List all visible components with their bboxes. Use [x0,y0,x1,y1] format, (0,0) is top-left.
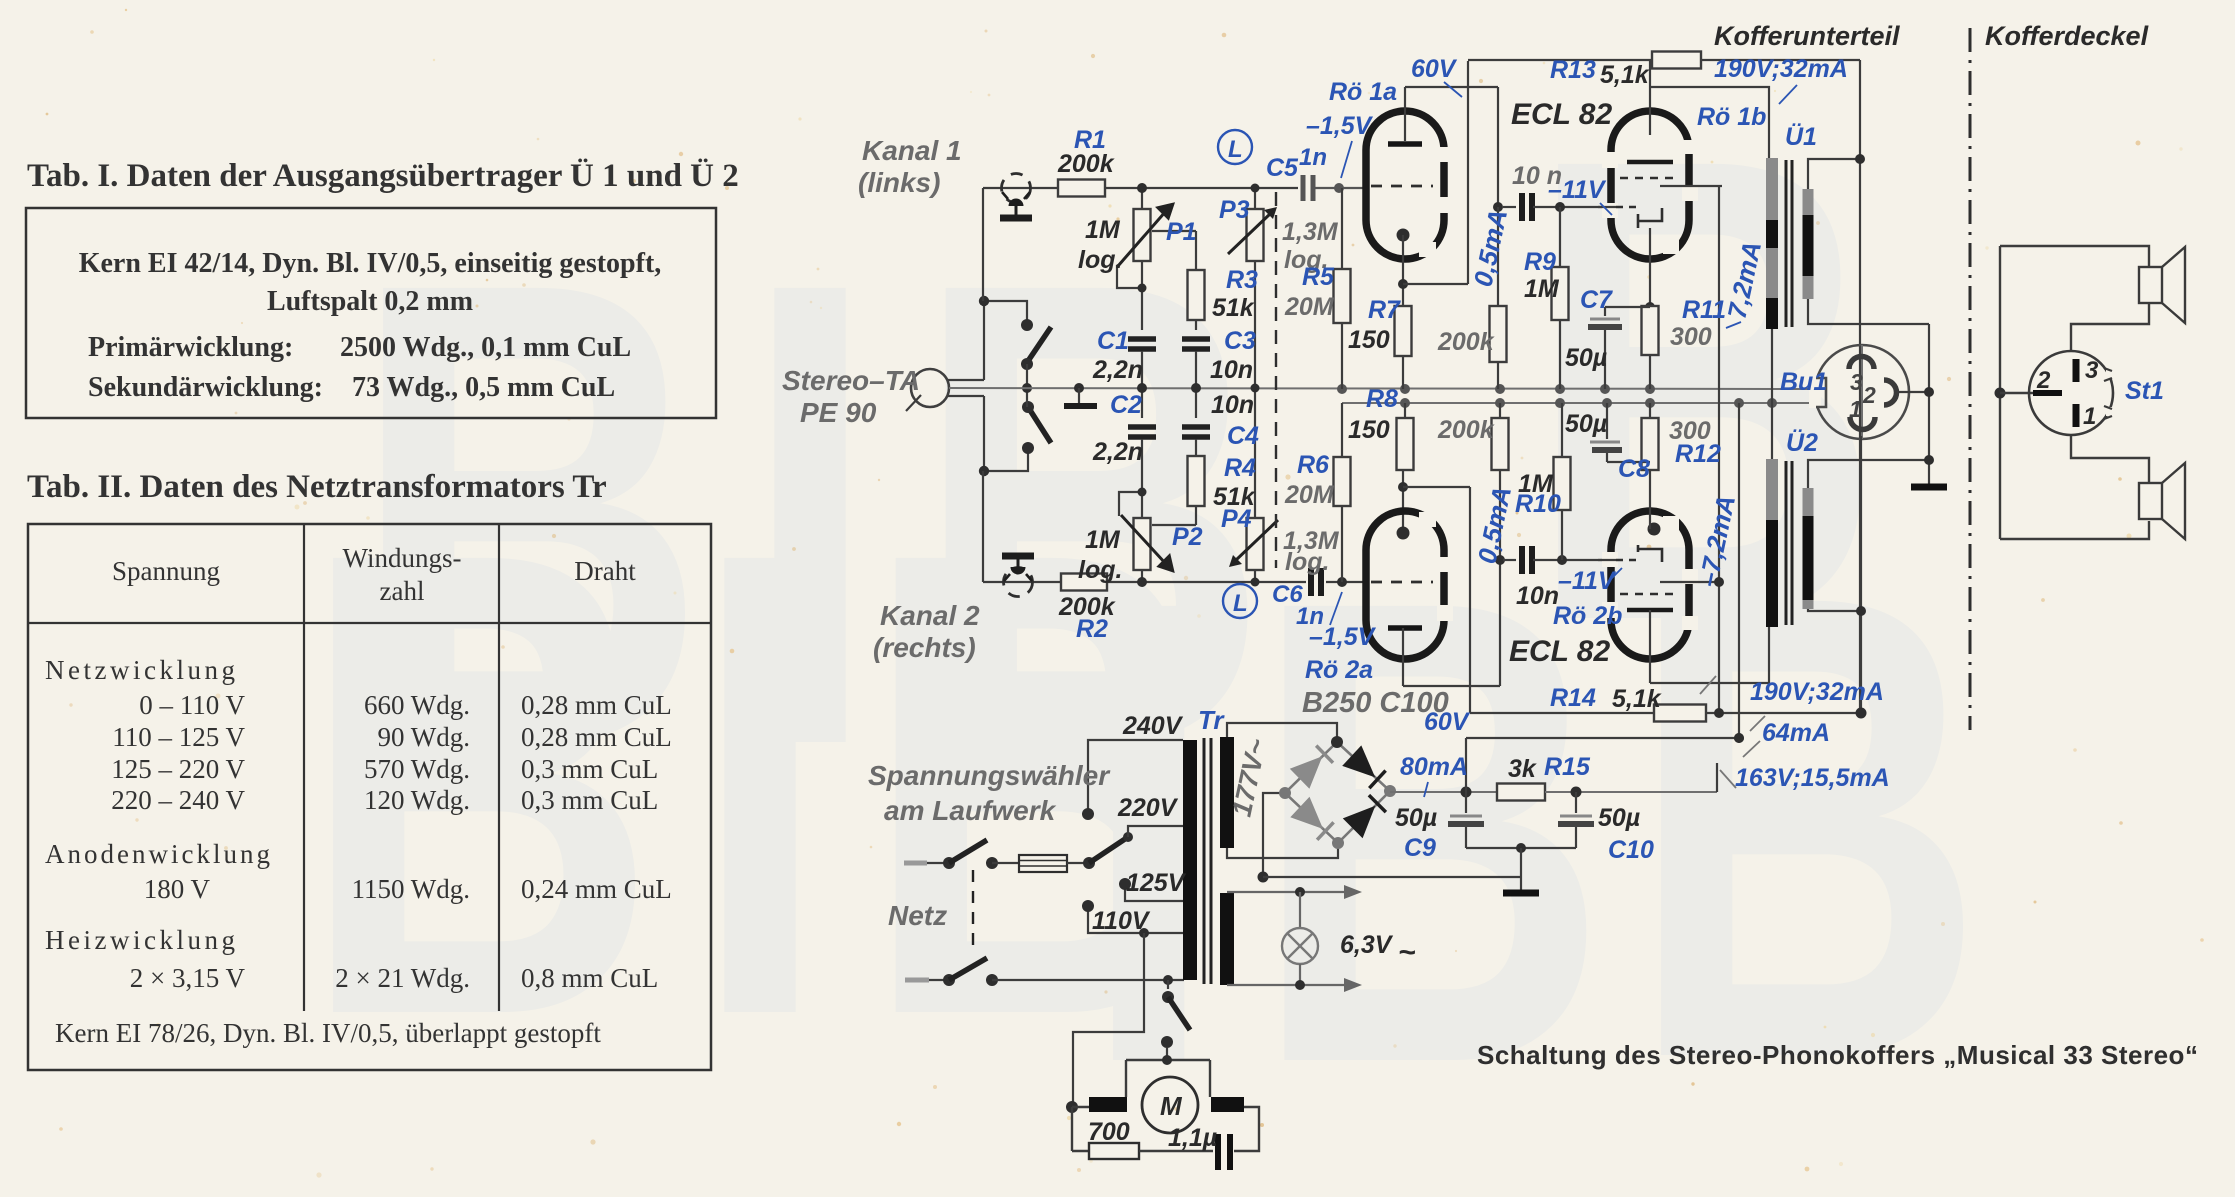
svg-text:C2: C2 [1110,391,1142,419]
svg-text:1: 1 [1849,396,1862,422]
svg-text:570 Wdg.: 570 Wdg. [364,754,470,784]
svg-text:3: 3 [1850,369,1863,395]
svg-text:80mA: 80mA [1400,753,1468,781]
svg-text:–11V: –11V [1548,176,1607,204]
svg-text:150: 150 [1348,416,1390,444]
svg-text:10n: 10n [1210,356,1253,384]
svg-text:C7: C7 [1580,286,1613,314]
svg-text:am Laufwerk: am Laufwerk [884,795,1057,826]
svg-text:–11V: –11V [1558,567,1617,595]
svg-text:C10: C10 [1608,836,1654,864]
svg-text:1,3M: 1,3M [1282,218,1339,246]
svg-text:R3: R3 [1226,266,1258,294]
svg-text:Luftspalt 0,2 mm: Luftspalt 0,2 mm [267,286,473,317]
svg-text:10n: 10n [1211,391,1254,419]
svg-text:ECL 82: ECL 82 [1511,98,1612,131]
svg-text:180 V: 180 V [144,874,211,904]
svg-text:Heizwicklung: Heizwicklung [45,925,238,955]
svg-text:660 Wdg.: 660 Wdg. [364,690,470,720]
svg-text:L: L [1228,136,1243,163]
svg-text:–1,5V: –1,5V [1306,112,1374,140]
svg-text:Draht: Draht [574,556,636,586]
svg-text:190V;32mA: 190V;32mA [1750,678,1884,706]
svg-text:C8: C8 [1618,455,1650,483]
svg-text:Windungs-: Windungs- [343,543,462,573]
svg-text:Spannungswähler: Spannungswähler [868,760,1111,791]
svg-text:1: 1 [2083,403,2096,430]
svg-text:2 × 3,15 V: 2 × 3,15 V [130,963,246,993]
svg-text:50µ: 50µ [1395,804,1437,832]
svg-text:Schaltung des Stereo-Phonokoff: Schaltung des Stereo-Phonokoffers „Music… [1477,1040,2198,1070]
svg-text:R11: R11 [1682,296,1726,324]
svg-text:R2: R2 [1076,615,1108,643]
svg-text:1M: 1M [1085,216,1121,244]
svg-text:700: 700 [1088,1118,1130,1146]
svg-text:–1,5V: –1,5V [1309,623,1377,651]
svg-text:2: 2 [1862,382,1876,408]
svg-text:C1: C1 [1097,327,1129,355]
svg-text:1M: 1M [1085,526,1121,554]
svg-text:R8: R8 [1366,385,1398,413]
svg-text:Rö 2b: Rö 2b [1553,602,1622,630]
svg-text:St1: St1 [2125,377,2164,405]
svg-text:0,3 mm CuL: 0,3 mm CuL [521,785,658,815]
svg-text:Rö 1b: Rö 1b [1697,103,1766,131]
svg-text:C5: C5 [1266,154,1299,182]
svg-text:3: 3 [2085,357,2099,384]
svg-text:R9: R9 [1524,248,1556,276]
svg-text:R15: R15 [1544,753,1591,781]
svg-text:P4: P4 [1221,505,1252,533]
svg-text:Stereo–TA: Stereo–TA [782,365,920,396]
svg-text:20M: 20M [1284,481,1335,509]
svg-text:zahl: zahl [380,576,425,606]
svg-text:1150 Wdg.: 1150 Wdg. [352,874,471,904]
svg-text:Kofferdeckel: Kofferdeckel [1985,21,2149,51]
svg-text:110 – 125 V: 110 – 125 V [112,722,245,752]
svg-text:1n: 1n [1299,144,1327,171]
svg-text:ECL 82: ECL 82 [1509,635,1610,668]
svg-text:51k: 51k [1212,294,1255,322]
svg-text:20M: 20M [1284,293,1335,321]
svg-text:0,28 mm CuL: 0,28 mm CuL [521,690,672,720]
svg-text:R14: R14 [1550,684,1596,712]
svg-text:Sekundärwicklung:: Sekundärwicklung: [88,372,323,403]
svg-text:220 – 240 V: 220 – 240 V [111,785,245,815]
svg-text:50µ: 50µ [1598,804,1640,832]
svg-text:Anodenwicklung: Anodenwicklung [45,839,273,869]
svg-text:R6: R6 [1297,451,1330,479]
svg-text:L: L [1233,590,1248,617]
svg-text:R10: R10 [1515,490,1561,518]
svg-text:Ü1: Ü1 [1785,122,1817,151]
svg-text:Tab. I. Daten der Ausgangsüber: Tab. I. Daten der Ausgangsübertrager Ü 1… [27,157,739,194]
svg-text:2: 2 [2036,367,2051,394]
svg-text:240V: 240V [1122,712,1184,740]
svg-text:150: 150 [1348,326,1390,354]
svg-text:2500 Wdg., 0,1 mm CuL: 2500 Wdg., 0,1 mm CuL [340,332,631,363]
svg-text:5,1k: 5,1k [1612,685,1662,713]
svg-text:200k: 200k [1437,328,1495,356]
svg-text:5,1k: 5,1k [1600,61,1650,89]
svg-text:Ü2: Ü2 [1786,428,1818,457]
svg-text:R5: R5 [1302,263,1335,291]
svg-text:C3: C3 [1224,327,1256,355]
svg-text:125V: 125V [1126,869,1187,897]
svg-text:50µ: 50µ [1565,344,1607,372]
svg-text:60V: 60V [1411,55,1458,83]
svg-text:Kern EI 42/14, Dyn. Bl. IV/0,5: Kern EI 42/14, Dyn. Bl. IV/0,5, einseiti… [79,248,662,279]
svg-text:P1: P1 [1166,218,1197,246]
svg-text:3k: 3k [1508,755,1537,783]
svg-text:50µ: 50µ [1565,410,1607,438]
svg-text:Tr: Tr [1198,705,1225,735]
svg-text:Rö 2a: Rö 2a [1305,656,1373,684]
svg-text:C4: C4 [1227,422,1259,450]
svg-text:Kofferunterteil: Kofferunterteil [1714,21,1900,51]
svg-text:90 Wdg.: 90 Wdg. [378,722,471,752]
svg-text:P3: P3 [1219,196,1250,224]
svg-text:110V: 110V [1092,907,1151,935]
svg-text:Kanal 2: Kanal 2 [880,600,980,631]
svg-text:64mA: 64mA [1762,719,1830,747]
svg-text:2 × 21 Wdg.: 2 × 21 Wdg. [335,963,470,993]
svg-text:2,2n: 2,2n [1092,356,1143,384]
svg-text:1M: 1M [1524,275,1560,303]
svg-text:~: ~ [1398,936,1416,969]
svg-text:73 Wdg., 0,5 mm CuL: 73 Wdg., 0,5 mm CuL [352,372,615,403]
svg-text:M: M [1160,1091,1183,1121]
svg-text:R4: R4 [1224,454,1256,482]
svg-text:0,8 mm CuL: 0,8 mm CuL [521,963,658,993]
svg-text:163V;15,5mA: 163V;15,5mA [1735,764,1890,792]
svg-text:0,28 mm CuL: 0,28 mm CuL [521,722,672,752]
svg-text:PE 90: PE 90 [800,397,877,428]
svg-text:Tab. II. Daten des Netztransfo: Tab. II. Daten des Netztransformators Tr [27,469,607,505]
svg-text:60V: 60V [1424,708,1471,736]
svg-text:R7: R7 [1368,296,1401,324]
svg-text:Rö 1a: Rö 1a [1329,78,1397,106]
svg-text:300: 300 [1670,323,1712,351]
svg-text:200k: 200k [1057,150,1115,178]
svg-text:Bu1: Bu1 [1780,368,1827,396]
svg-text:190V;32mA: 190V;32mA [1714,55,1848,83]
svg-text:Spannung: Spannung [112,556,220,586]
svg-text:C9: C9 [1404,834,1436,862]
svg-text:120 Wdg.: 120 Wdg. [364,785,470,815]
svg-text:Netz: Netz [888,900,947,931]
svg-text:log.: log. [1078,556,1122,584]
svg-text:125 – 220 V: 125 – 220 V [111,754,245,784]
svg-text:Primärwicklung:: Primärwicklung: [88,332,293,363]
svg-text:R13: R13 [1550,56,1596,84]
svg-text:0,24 mm CuL: 0,24 mm CuL [521,874,672,904]
svg-text:0,3 mm CuL: 0,3 mm CuL [521,754,658,784]
svg-text:Kern EI 78/26, Dyn. Bl. IV/0,5: Kern EI 78/26, Dyn. Bl. IV/0,5, überlapp… [55,1018,601,1048]
svg-text:2,2n: 2,2n [1092,438,1143,466]
svg-text:6,3V: 6,3V [1340,931,1394,959]
svg-text:log.: log. [1285,548,1329,576]
svg-text:200k: 200k [1437,416,1495,444]
svg-text:1,1µ: 1,1µ [1168,1124,1217,1152]
svg-text:log.: log. [1078,246,1122,274]
svg-text:(rechts): (rechts) [873,632,976,663]
svg-text:(links): (links) [858,167,940,198]
svg-text:Kanal 1: Kanal 1 [862,135,962,166]
svg-text:220V: 220V [1117,794,1179,822]
svg-text:P2: P2 [1172,523,1203,551]
svg-text:R12: R12 [1675,440,1721,468]
svg-text:0 – 110 V: 0 – 110 V [139,690,245,720]
svg-text:Netzwicklung: Netzwicklung [45,655,238,685]
